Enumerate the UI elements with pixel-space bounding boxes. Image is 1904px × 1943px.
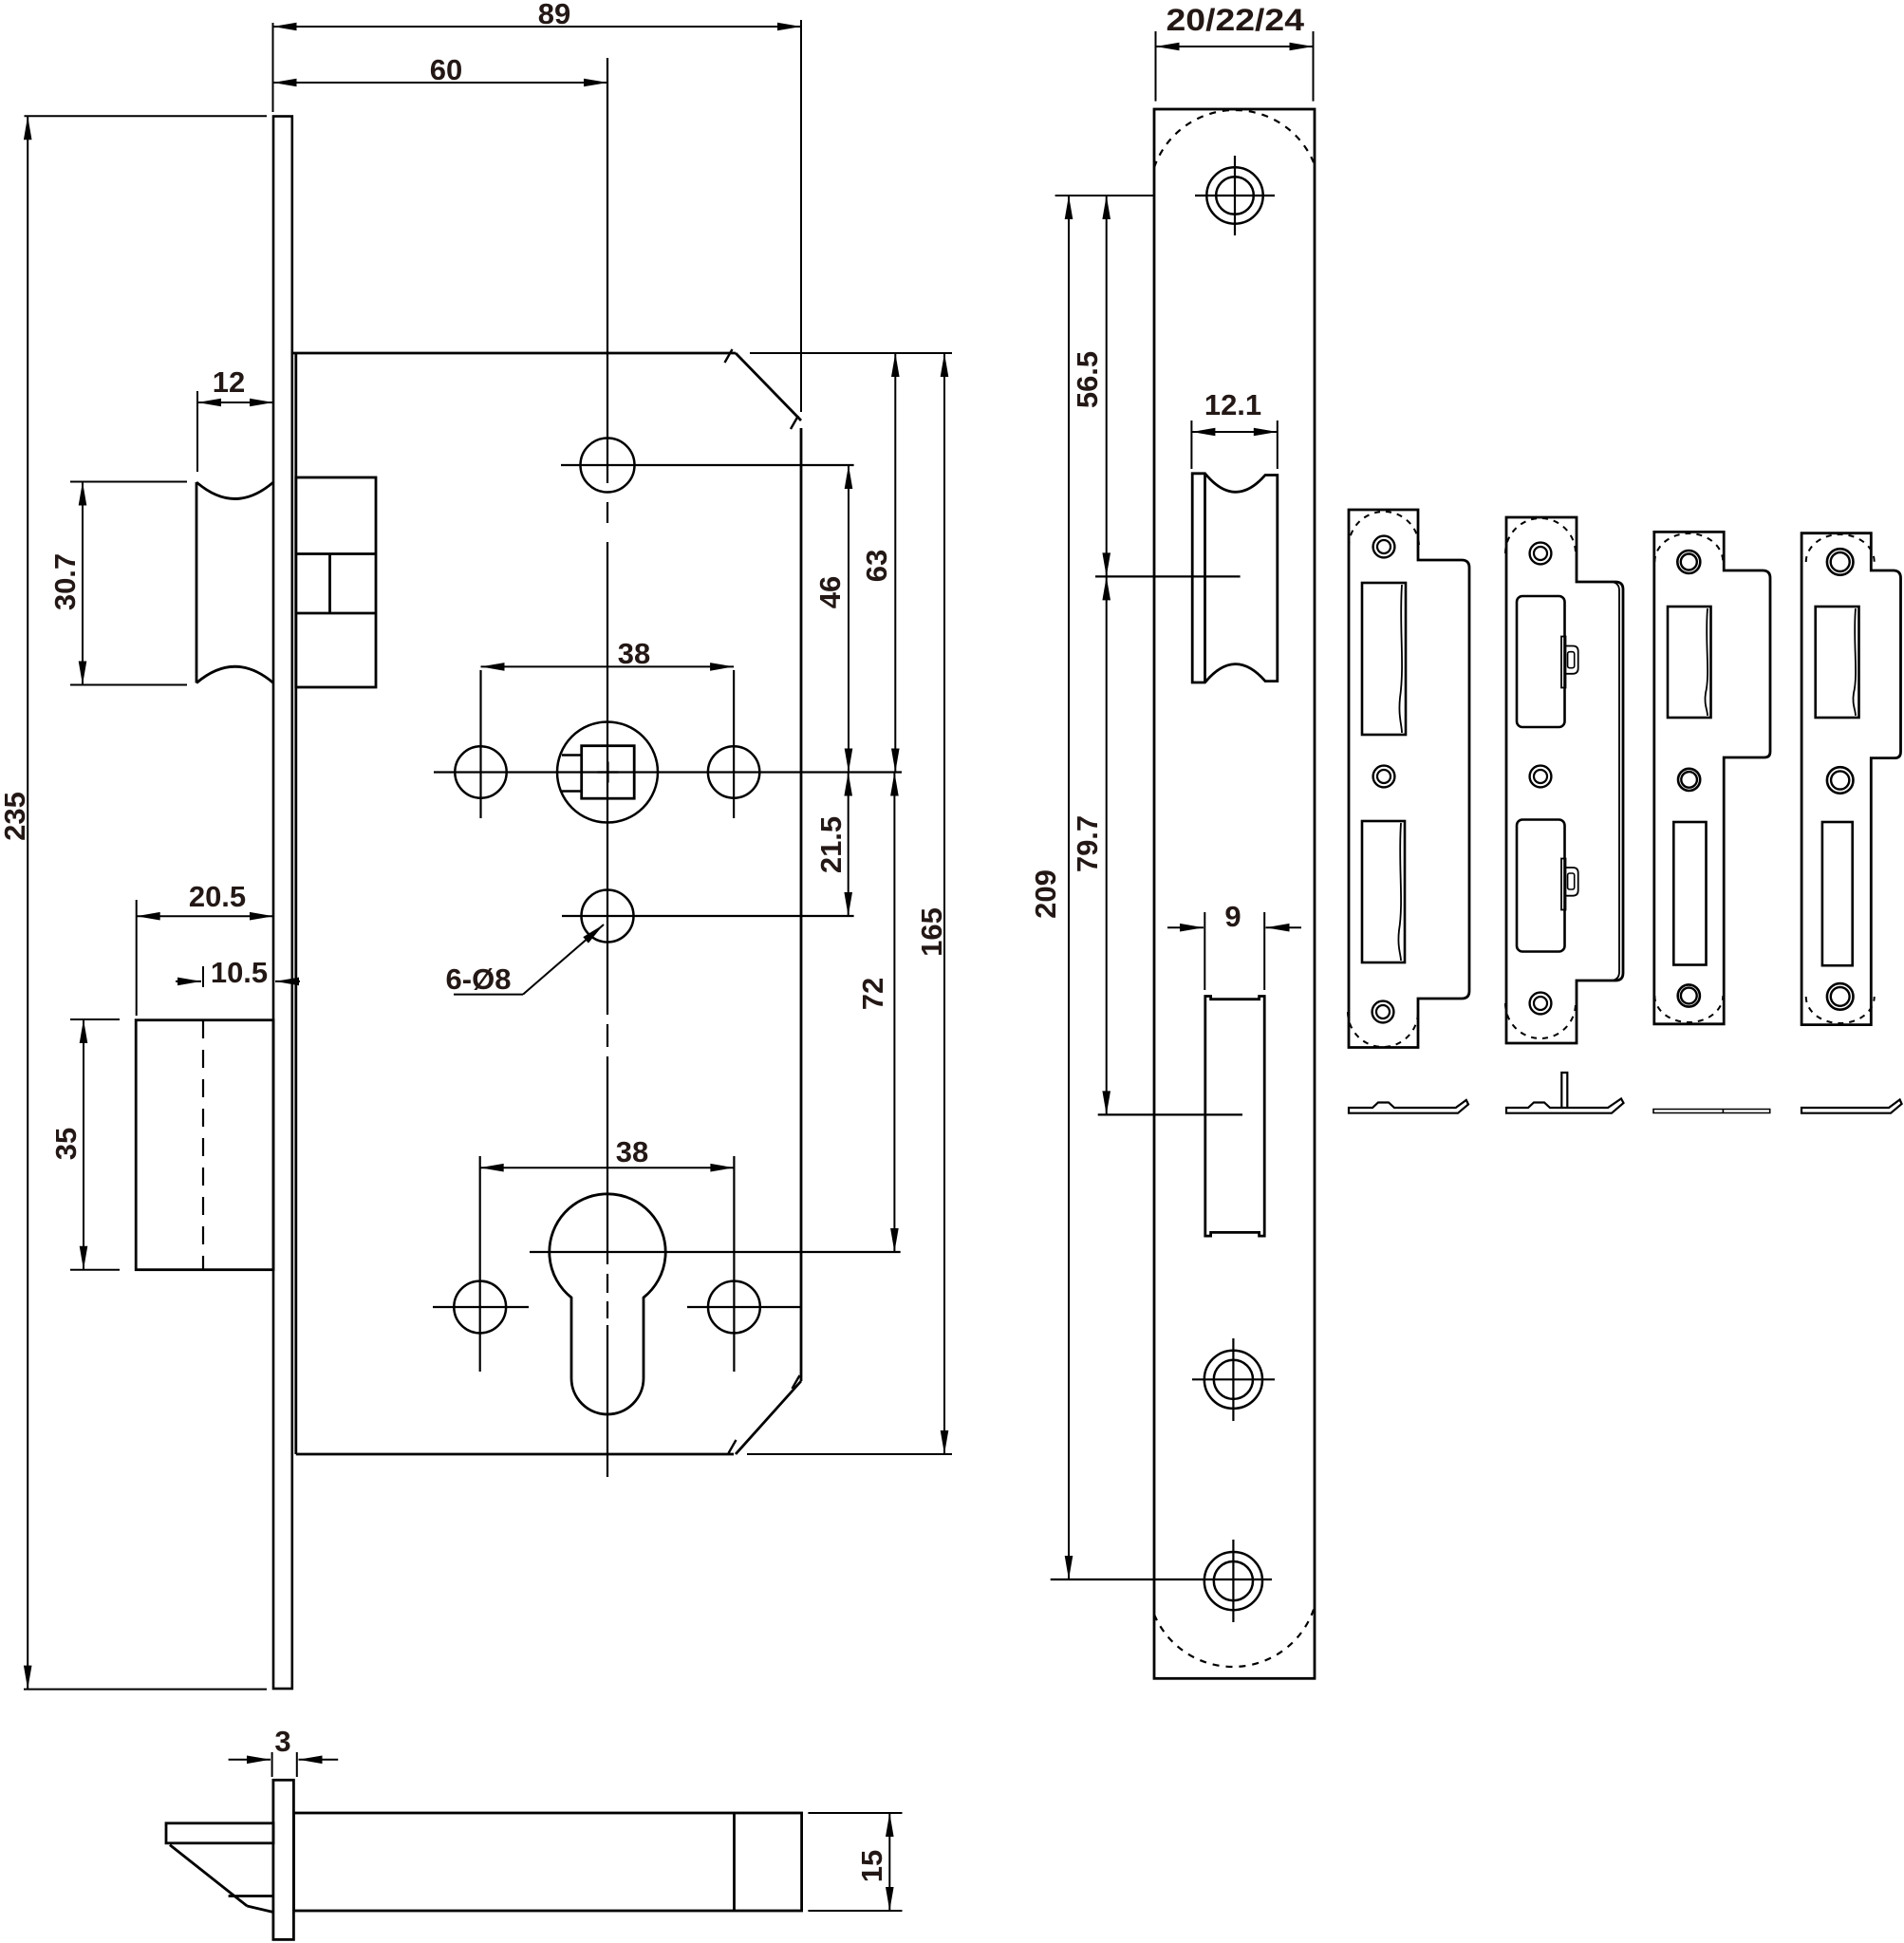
ext line case bottom right (747, 1453, 952, 1455)
break tick bottom chamfer lower (729, 1440, 737, 1453)
strike 4 latch cutout (1816, 607, 1859, 718)
strike 2 bolt cutout (1517, 820, 1565, 952)
svg-text:72: 72 (856, 978, 889, 1010)
strike 1 bottom dashed arc (1348, 1012, 1418, 1047)
dim 56.5 top extension (1055, 195, 1154, 196)
strike 2 bolt tab hole (1568, 873, 1575, 889)
faceplate top dashed arc (1154, 110, 1314, 167)
deadbolt center dashed line (202, 1020, 204, 1270)
strike plate 3 outline (1654, 532, 1770, 1023)
svg-text:63: 63 (860, 550, 893, 582)
top hole horizontal line (561, 464, 854, 466)
cylinder euro profile outline (550, 1194, 665, 1414)
svg-text:89: 89 (538, 0, 570, 30)
strike 3 top screw outer (1677, 551, 1700, 573)
lock case left edge (294, 353, 297, 1454)
spindle square hole (582, 746, 635, 799)
svg-text:12.1: 12.1 (1204, 388, 1261, 421)
bottom view bolt bevel end (247, 1906, 273, 1913)
dim 63 line (894, 353, 896, 773)
center line segment 3 (607, 1056, 608, 1264)
svg-text:21.5: 21.5 (814, 816, 848, 873)
handle hole left vertical (479, 670, 481, 818)
strike 1 top screw inner (1377, 540, 1391, 553)
svg-text:209: 209 (1029, 869, 1062, 919)
center line dash 4 (607, 1301, 608, 1318)
faceplate bottom screw cross v (1232, 1540, 1234, 1622)
bottom view bolt lower edge (229, 1895, 273, 1897)
holes horizontal center line (434, 771, 902, 773)
deadbolt center line tick (202, 966, 204, 987)
dim 12.1 right extension (1277, 420, 1279, 469)
dim 9 right extension (1263, 912, 1265, 990)
dim 89 left extension (272, 23, 274, 112)
strike 4 latch cutout wavy line (1853, 608, 1856, 716)
dim 235 bottom extension (24, 1689, 267, 1691)
cylinder hole left vertical (479, 1156, 481, 1372)
strike 2 mid screw outer (1530, 766, 1552, 788)
dim 20/22/24 right extension (1313, 31, 1315, 102)
faceplate mid screw cross v (1232, 1338, 1234, 1421)
latch bolt left edge (196, 482, 198, 683)
dim 21.5 line (848, 773, 849, 917)
dim 9 right arrow (1266, 926, 1302, 928)
dim 10.5 left arrow (176, 981, 201, 982)
cylinder hole left horizontal (433, 1306, 529, 1308)
strike plate 1 outline (1349, 510, 1469, 1048)
deadbolt cutout center ext line (1098, 1113, 1242, 1115)
strike 3 latch cutout (1668, 607, 1711, 718)
spindle center cross h (598, 771, 619, 773)
latch bolt top arc (196, 482, 273, 499)
svg-text:79.7: 79.7 (1071, 815, 1104, 872)
latch cutout center ext line (1095, 575, 1241, 577)
strike 2 latch tab bar (1561, 637, 1566, 688)
handle hole left (455, 746, 506, 797)
strike 3 bottom dashed arc (1654, 996, 1723, 1022)
strike 4 mid screw inner (1831, 771, 1849, 789)
dim 30.7 bottom extension (70, 684, 187, 686)
faceplate top screw hole cross h (1195, 195, 1275, 196)
label 6-O8 leader (523, 925, 604, 995)
lock case top-right chamfer (736, 353, 801, 420)
center line segment 4 (607, 1325, 608, 1477)
strike plate 4 outline (1801, 533, 1900, 1025)
middle hole circle (582, 890, 634, 943)
svg-text:9: 9 (1224, 900, 1241, 933)
handle hole right (708, 746, 759, 797)
spindle center cross v (607, 762, 608, 783)
dim 72 line (893, 773, 895, 1253)
dim 15 bottom extension (808, 1910, 902, 1912)
strike 2 latch cutout (1517, 596, 1565, 727)
svg-text:6-Ø8: 6-Ø8 (446, 962, 512, 996)
lock case top edge (293, 352, 736, 355)
dim 3 right extension (296, 1752, 298, 1777)
dim 12.1 left extension (1190, 420, 1192, 469)
dim 235 top extension (25, 115, 268, 117)
center line segment 1 (607, 58, 608, 483)
cylinder horizontal center line (530, 1251, 901, 1253)
strike 3 bolt cutout (1673, 822, 1706, 965)
svg-text:15: 15 (855, 1850, 888, 1882)
faceplate bottom screw hole outer (1204, 1552, 1262, 1610)
faceplate mid screw hole outer (1204, 1351, 1262, 1409)
dim 9 left arrow (1167, 926, 1204, 928)
strike 3 top dashed arc (1654, 533, 1723, 562)
strike 2 top screw outer (1530, 543, 1552, 565)
svg-text:20.5: 20.5 (189, 880, 246, 913)
label 6-O8 underline (454, 994, 523, 996)
handle hole right vertical (733, 670, 735, 818)
strike 4 bottom screw outer (1827, 983, 1854, 1010)
faceplate top screw hole cross v (1234, 156, 1236, 235)
deadbolt body (136, 1020, 273, 1270)
faceplate bottom screw hole inner (1214, 1561, 1253, 1600)
strike 1 top screw outer (1373, 536, 1395, 558)
latch body inner line lower (296, 612, 376, 615)
dim 30.7 top extension (70, 481, 187, 483)
strike 2 lip fold line (1577, 582, 1619, 981)
dim 15 top extension (808, 1812, 902, 1814)
strike 4 bottom dashed arc (1806, 997, 1875, 1023)
strike 2 top dashed arc (1505, 518, 1576, 553)
lock case bottom edge (296, 1453, 734, 1456)
dim 235 line (27, 116, 28, 1689)
strike 2 mid screw inner (1534, 770, 1547, 783)
dim 3 left arrow (229, 1759, 271, 1761)
svg-text:235: 235 (0, 792, 31, 841)
dim 38 upper line (481, 665, 735, 667)
strike 2 latch tab hole (1568, 652, 1575, 668)
strike 3 bottom screw inner (1681, 988, 1697, 1004)
strike 3 mid screw inner (1681, 772, 1697, 788)
svg-text:35: 35 (49, 1128, 83, 1160)
bottom view bolt bevel diagonal (170, 1845, 247, 1906)
dim 12 line (197, 402, 273, 403)
strike 3 bottom screw outer (1678, 984, 1700, 1006)
strike 3 top screw inner (1681, 554, 1697, 570)
svg-text:10.5: 10.5 (211, 956, 268, 989)
break tick top chamfer lower (791, 416, 798, 429)
dim 9 left extension (1204, 912, 1205, 990)
svg-text:38: 38 (618, 637, 650, 670)
faceplate (forend) side view (273, 117, 292, 1690)
spindle slot upper (562, 754, 582, 756)
strike 1 bolt cutout (1362, 821, 1405, 962)
dim 60 line (273, 82, 608, 84)
strike plate 2 outline (1506, 517, 1623, 1043)
bottom view latch body (293, 1813, 801, 1911)
strike 1 bottom screw outer (1372, 1001, 1394, 1023)
dim 38 lower line (480, 1167, 735, 1168)
faceplate bottom dashed arc (1154, 1610, 1314, 1667)
top hole circle (581, 439, 635, 493)
cylinder hole right vertical (733, 1156, 735, 1372)
dim 79.7 line (1106, 576, 1108, 1114)
center line dash 1 (607, 502, 608, 523)
dim 10.5 right arrow (275, 981, 300, 982)
faceplate mid screw hole inner (1214, 1360, 1253, 1399)
center line segment 2 (607, 542, 608, 1015)
spindle hub circle (557, 722, 658, 823)
latch body inner vertical (328, 554, 331, 614)
latch body inner line upper (296, 552, 376, 555)
faceplate mid screw cross h (1192, 1378, 1275, 1380)
dim 165 line (943, 353, 945, 1454)
strike profile 2 pin (1561, 1073, 1567, 1108)
break tick bottom chamfer upper (793, 1375, 800, 1389)
strike 1 mid screw outer (1373, 766, 1395, 788)
cylinder hole left (454, 1281, 506, 1334)
strike 1 bottom screw inner (1376, 1005, 1390, 1018)
dim 12.1 line (1191, 431, 1277, 433)
bottom view bolt head strip (166, 1823, 273, 1843)
cylinder hole right (708, 1281, 760, 1334)
lock case bottom-right chamfer (736, 1381, 801, 1454)
strike 2 bottom screw outer (1530, 993, 1552, 1015)
dim 3 left extension (271, 1752, 273, 1777)
dim 20.5 extension (136, 900, 138, 1016)
strike 1 top dashed arc (1349, 512, 1419, 547)
deadbolt cutout outline (1205, 997, 1264, 1237)
strike 3 mid screw outer (1678, 769, 1700, 791)
strike profile 3 (1653, 1110, 1770, 1113)
strike profile 3 mid tick (1722, 1110, 1724, 1113)
svg-text:165: 165 (915, 907, 948, 957)
strike 1 latch cutout wavy line (1399, 585, 1402, 733)
bottom view faceplate bar (273, 1780, 294, 1939)
strike 4 mid screw outer (1827, 767, 1854, 794)
svg-text:60: 60 (430, 53, 462, 86)
bottom view latch tail line (733, 1813, 736, 1911)
faceplate top screw hole inner (1216, 177, 1254, 215)
strike 2 bottom dashed arc (1505, 1003, 1576, 1038)
svg-text:46: 46 (813, 576, 847, 608)
svg-text:3: 3 (274, 1725, 290, 1758)
strike 4 top screw inner (1831, 552, 1850, 571)
break tick top chamfer upper (725, 349, 733, 363)
latch follower body outline (296, 477, 376, 687)
faceplate top screw hole outer (1206, 167, 1262, 223)
latch bolt bottom arc (196, 666, 273, 682)
latch cutout outline (1192, 474, 1278, 682)
lock case right edge (800, 428, 803, 1381)
dim 209 bottom extension (1051, 1579, 1272, 1580)
strike 2 bolt tab clip (1566, 868, 1578, 896)
center line dash 2 (607, 1024, 608, 1047)
dim 46 line (848, 465, 849, 773)
dim 3 right arrow (299, 1759, 339, 1761)
svg-text:56.5: 56.5 (1071, 351, 1104, 408)
strike 1 bolt cutout wavy line (1398, 823, 1401, 961)
strike profile 4 (1801, 1100, 1902, 1113)
strike 2 latch tab clip (1566, 646, 1578, 674)
dim 35 line (83, 1019, 84, 1270)
center line dash 3 (607, 1274, 608, 1293)
dim 20/22/24 line (1156, 46, 1314, 47)
strike profile 1 (1349, 1100, 1468, 1113)
strike 2 bottom screw inner (1534, 997, 1547, 1010)
dim 15 line (888, 1813, 890, 1911)
svg-text:38: 38 (616, 1135, 648, 1168)
strike 3 latch cutout wavy line (1705, 608, 1708, 716)
strike 4 top dashed arc (1806, 534, 1875, 562)
strike 1 mid screw inner (1377, 770, 1391, 783)
strike 1 latch cutout (1362, 583, 1406, 735)
svg-text:30.7: 30.7 (48, 553, 82, 610)
dim 209 line (1068, 196, 1070, 1579)
dim 30.7 line (82, 482, 84, 685)
dim 35 top extension (70, 1018, 120, 1020)
dim 89 line (273, 26, 802, 28)
latch cutout inner line (1204, 475, 1206, 682)
strike 2 bolt tab bar (1561, 859, 1566, 910)
svg-text:20/22/24: 20/22/24 (1167, 3, 1305, 37)
dim 20/22/24 left extension (1155, 31, 1157, 102)
strike 2 top screw inner (1534, 547, 1547, 560)
spindle slot lower (562, 790, 582, 792)
dim 12 extension line (196, 391, 198, 472)
strike profile 2 body (1506, 1099, 1624, 1113)
ext line case top right (750, 352, 952, 354)
faceplate front outline (1154, 109, 1315, 1678)
dim 20.5 line (137, 915, 273, 917)
dim 89 right extension (800, 20, 802, 412)
strike 4 top screw outer (1827, 549, 1854, 575)
strike 4 bottom screw inner (1831, 987, 1850, 1006)
dim 35 bottom extension (70, 1269, 120, 1271)
middle hole horizontal line (562, 915, 854, 917)
cylinder hole right horizontal (687, 1306, 802, 1308)
dim 56.5 line (1106, 196, 1108, 576)
svg-text:12: 12 (213, 365, 245, 399)
strike 4 bolt cutout (1822, 822, 1853, 965)
